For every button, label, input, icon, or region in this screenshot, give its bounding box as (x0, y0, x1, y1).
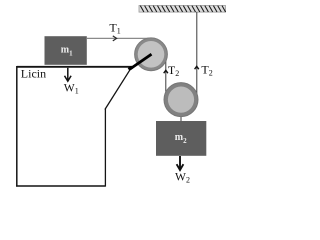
arrow W2 (177, 156, 184, 170)
arrowhead T1 (113, 36, 117, 41)
ceiling hatching (140, 6, 225, 12)
rope from ceiling to lower pulley (196, 12, 198, 96)
table outline (16, 66, 131, 187)
svg-text:T1: T1 (109, 21, 120, 36)
arrow T2 right (195, 66, 199, 69)
junction blob at table corner (128, 66, 134, 71)
rope T1 from m1 to upper pulley (87, 37, 152, 39)
ceiling bar (139, 6, 226, 13)
strut from table corner to upper pulley axle (130, 54, 152, 69)
lower pulley (164, 83, 198, 117)
upper pulley (135, 38, 168, 71)
arrow W1 (65, 68, 72, 81)
svg-text:T2: T2 (201, 62, 212, 77)
hook between lower pulley and m2 (180, 110, 182, 122)
svg-text:W2: W2 (175, 171, 190, 185)
svg-text:W1: W1 (64, 82, 79, 96)
arrow T2 left (164, 70, 168, 73)
svg-text:Licin: Licin (21, 67, 46, 81)
block m1 (45, 36, 87, 65)
rope between pulleys (165, 54, 167, 96)
block m2 (156, 121, 206, 156)
svg-text:T2: T2 (168, 63, 179, 78)
